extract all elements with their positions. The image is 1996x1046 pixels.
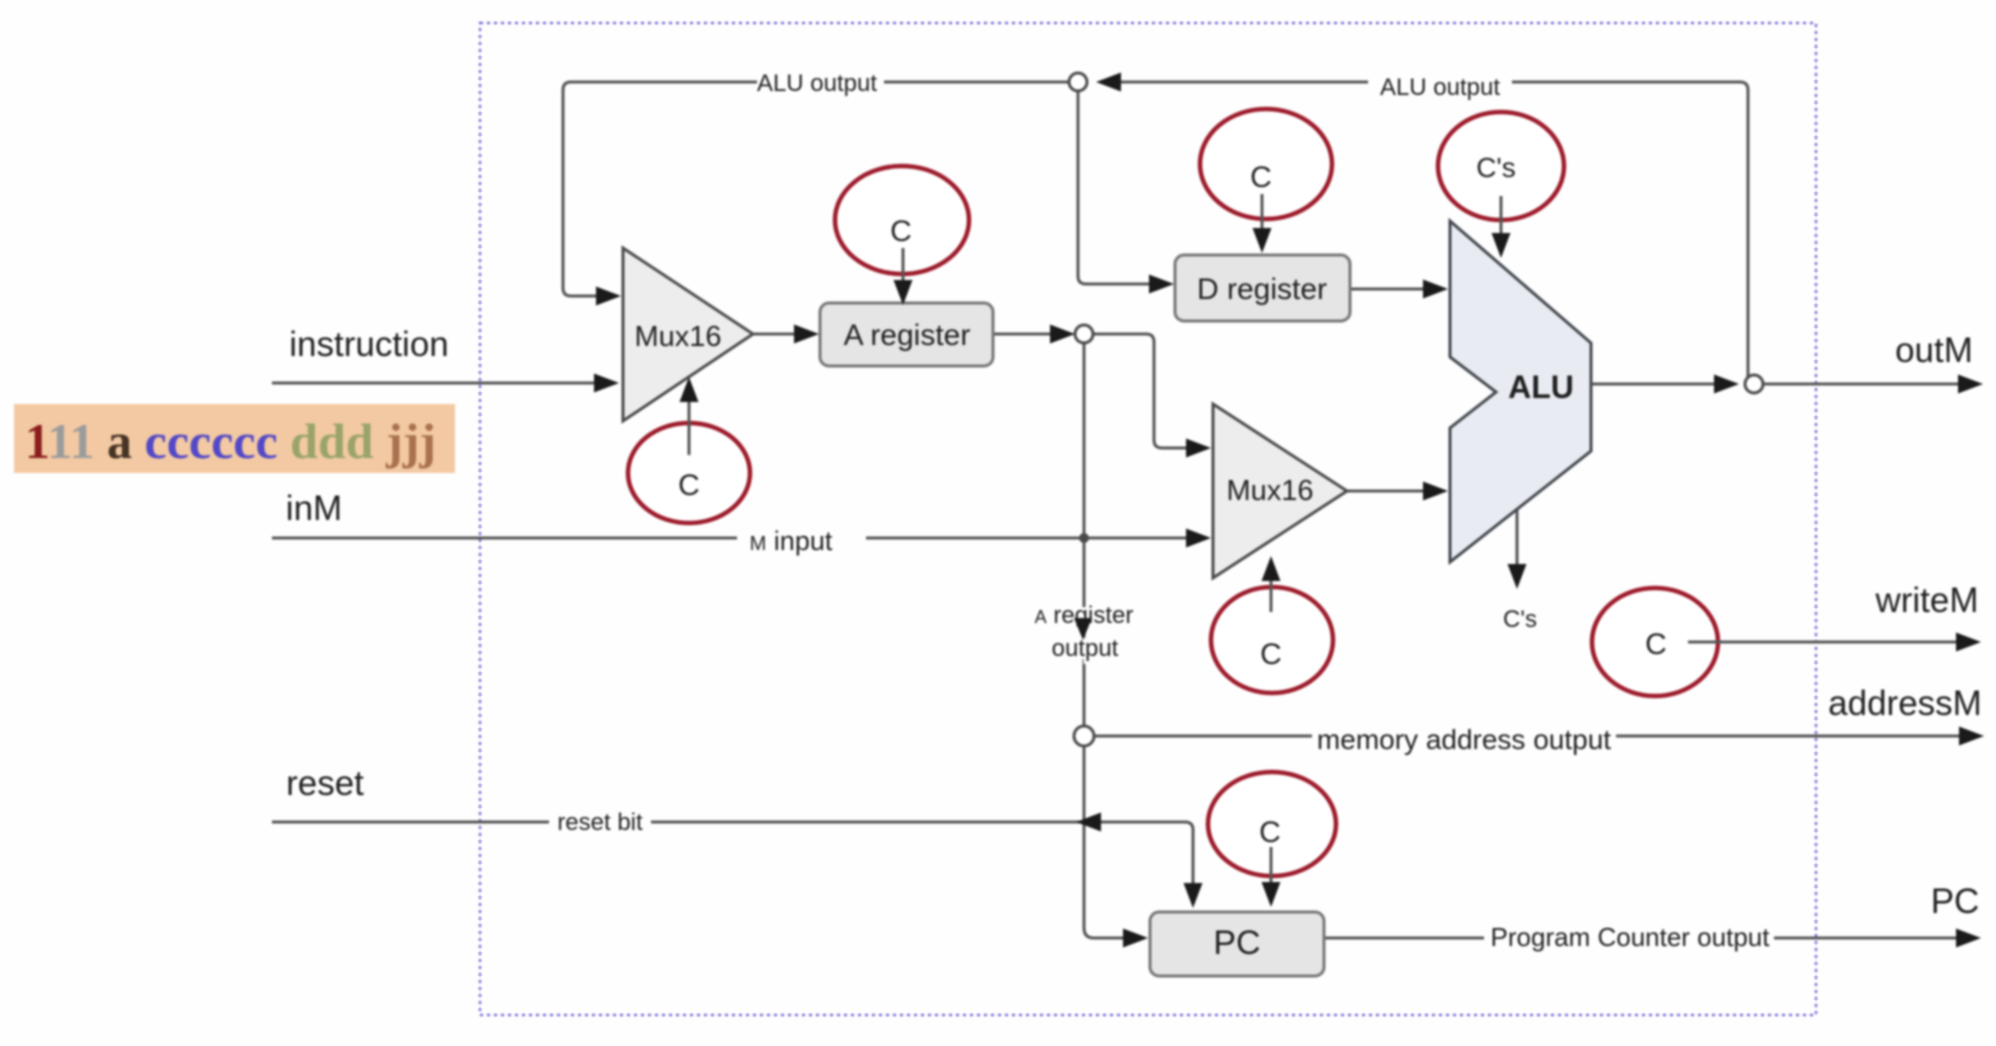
svg-text:A register: A register (844, 319, 971, 352)
svg-text:ALU output: ALU output (757, 70, 877, 97)
svg-text:D register: D register (1197, 273, 1327, 306)
svg-text:C: C (1250, 161, 1272, 194)
svg-text:M input: M input (750, 526, 833, 556)
svg-text:ALU: ALU (1508, 369, 1574, 405)
svg-text:C's: C's (1476, 152, 1516, 183)
svg-text:C: C (678, 469, 700, 502)
svg-text:Mux16: Mux16 (1226, 475, 1313, 507)
svg-text:C: C (890, 215, 912, 248)
svg-text:C: C (1260, 638, 1282, 671)
svg-text:ALU output: ALU output (1380, 74, 1500, 101)
svg-text:outM: outM (1895, 331, 1973, 370)
svg-text:memory address output: memory address output (1317, 724, 1611, 755)
svg-text:instruction: instruction (289, 325, 449, 364)
svg-text:output: output (1052, 635, 1119, 662)
svg-text:inM: inM (286, 489, 342, 528)
svg-text:PC: PC (1213, 924, 1260, 962)
svg-text:C: C (1259, 816, 1281, 849)
svg-text:C: C (1645, 628, 1667, 661)
svg-text:111 a cccccc ddd jjj: 111 a cccccc ddd jjj (25, 413, 436, 469)
svg-text:reset: reset (286, 764, 364, 803)
svg-text:writeM: writeM (1874, 581, 1978, 620)
svg-text:Program Counter output: Program Counter output (1491, 922, 1771, 952)
svg-text:reset bit: reset bit (557, 809, 643, 836)
svg-text:addressM: addressM (1828, 684, 1982, 723)
svg-text:C's: C's (1503, 606, 1537, 633)
svg-text:PC: PC (1931, 882, 1980, 921)
svg-text:Mux16: Mux16 (634, 321, 721, 353)
